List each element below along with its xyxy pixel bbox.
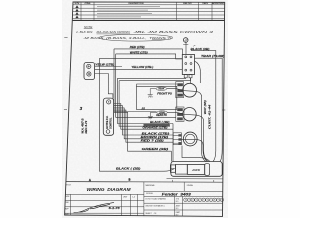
svg-text:MA-JNA SAN CROWN,: MA-JNA SAN CROWN,: [97, 30, 131, 34]
pickup P1 body: [84, 63, 95, 80]
wire to 250K oval: [114, 49, 157, 112]
svg-text:REAR PU: REAR PU: [156, 113, 168, 117]
pot R3 lugs: [178, 134, 181, 144]
svg-text:ACTIVE P.U.: ACTIVE P.U.: [106, 115, 109, 129]
svg-text:DESCRIPTION: DESCRIPTION: [129, 3, 144, 5]
wire red2 run: [114, 110, 173, 142]
wire switch lead lower: [119, 78, 190, 81]
ground lug G1: [183, 38, 188, 43]
wire white: [116, 54, 183, 59]
pickup P1 pole B: [87, 72, 91, 76]
svg-text:WIRING DIAGRAM: WIRING DIAGRAM: [87, 187, 131, 192]
wire lug to switch: [185, 42, 187, 54]
wire black top run right: [191, 51, 216, 162]
pickup P2 pole B: [106, 130, 110, 134]
revision description entries: [97, 7, 160, 17]
paper scan noise: [62, 0, 228, 218]
material finish labels: [146, 184, 194, 195]
svg-text:3: 3: [80, 106, 83, 111]
wire switch to pot1 top: [190, 78, 192, 84]
wire 250K to cap: [150, 112, 156, 116]
switch S1 bottom lugs: [184, 75, 192, 78]
svg-text:BLACK ( (3B): BLACK ( (3B): [116, 166, 140, 170]
svg-text:500K: 500K: [158, 88, 164, 91]
wire 500K to cap: [150, 89, 156, 95]
svg-text:WHT (3B): WHT (3B): [205, 100, 207, 114]
note emphasis oval: [99, 34, 173, 41]
wire switch right curve: [195, 61, 201, 83]
svg-text:TBAR (79.0M): TBAR (79.0M): [201, 54, 225, 58]
svg-text:A: A: [89, 178, 91, 182]
svg-text:ORANGE (17B): ORANGE (17B): [142, 125, 167, 129]
pot value oval 500K: [156, 87, 167, 91]
capacitor ground symbol front: [148, 95, 153, 98]
zone tick left frame: [64, 36, 67, 38]
svg-text:CURT. 41-44: CURT. 41-44: [209, 103, 212, 129]
svg-text:YELLOW (17B.): YELLOW (17B.): [131, 65, 153, 69]
pot R3 tone outer: [183, 132, 197, 146]
wire black3b run: [117, 78, 173, 123]
signature scribble: [74, 202, 115, 212]
svg-text:CONTROL: CONTROL: [110, 117, 112, 129]
standard notes cells: [145, 198, 181, 217]
jack plug tip: [170, 165, 175, 172]
label BLUE highlighted: [144, 124, 170, 126]
wire to pot2 lug3: [116, 54, 176, 117]
wire pot3 bottom to jack: [182, 146, 210, 162]
pot R1 volume front: [183, 83, 197, 97]
svg-text:YELW (17B): YELW (17B): [95, 62, 114, 66]
title block left grid: [65, 182, 144, 216]
svg-text:DATE: DATE: [202, 2, 208, 5]
wire to pot1 upper lug: [137, 84, 178, 86]
switch S1 terminals: [185, 56, 192, 71]
svg-text:JBL JM BASS CROWN 3: JBL JM BASS CROWN 3: [134, 30, 214, 34]
svg-text:RED (17B): RED (17B): [130, 45, 145, 49]
wire yellow: [95, 68, 183, 70]
pot R1 lugs: [177, 83, 183, 96]
title block right grid: [144, 182, 223, 216]
svg-text:MATERIAL: MATERIAL: [146, 184, 155, 187]
svg-text:APPROVED: APPROVED: [212, 2, 225, 5]
wire shield ground from switch to jack: [99, 59, 182, 172]
revision triangles sym column: [75, 5, 78, 18]
zone divider line below jack: [167, 178, 223, 180]
note line 2: [84, 36, 172, 40]
bracket to pot3: [172, 124, 174, 162]
svg-text:SHEET OF: SHEET OF: [145, 213, 157, 215]
svg-text:BLACK (3B): BLACK (3B): [191, 47, 210, 51]
pickup P1 pole A: [87, 64, 91, 68]
capacitor ground symbol rear: [148, 116, 153, 119]
zone marks above title block: [89, 178, 214, 182]
wire 250K through pot2 to jack: [167, 112, 208, 161]
sign row labels: [65, 196, 135, 216]
jack J1 body: [187, 165, 204, 175]
svg-text:REF NO: REF NO: [183, 3, 192, 5]
switch S1 body: [182, 55, 194, 75]
jack plug collar: [176, 164, 188, 174]
zone tick left frame lower: [64, 109, 67, 111]
wire through pot3 down: [182, 139, 208, 161]
svg-text:.02: .02: [141, 107, 145, 111]
svg-text:JZ BASS, (B-BASS, 3-BALL, TRA: JZ BASS, (B-BASS, 3-BALL, TRANS ?): [84, 36, 172, 40]
drawing sheet border frame: [65, 2, 225, 217]
svg-text:NOTE: NOTE: [84, 25, 93, 29]
detail box front circuit: [136, 86, 176, 109]
svg-text:1. BLK DW.: 1. BLK DW.: [76, 30, 93, 34]
wire 500K through pot1 to jack: [167, 89, 206, 162]
pot R2 lugs: [177, 108, 183, 120]
svg-text:B: B: [129, 178, 131, 182]
pot R3 tone inner: [185, 134, 195, 144]
pickup P2 pole A: [107, 100, 111, 104]
svg-text:BLACK ( (3B): BLACK ( (3B): [150, 120, 169, 124]
wire yelw label underline: [95, 65, 122, 67]
wire red: [114, 49, 182, 55]
svg-text:REV. 6-73: REV. 6-73: [84, 120, 88, 133]
wires bracket to pot3 lugs: [173, 135, 179, 143]
pot R1 lug box: [176, 82, 184, 98]
svg-text:ZONE: ZONE: [84, 3, 91, 5]
revision table headers: [75, 2, 225, 5]
svg-text:Fender 3403: Fender 3403: [162, 192, 191, 196]
std number digits: [185, 200, 224, 202]
title block top line: [66, 181, 223, 184]
svg-text:6-1-73: 6-1-73: [109, 207, 121, 210]
pickup P2 body (active control): [103, 98, 113, 135]
svg-text:TITLE: TITLE: [65, 184, 71, 186]
wire tbar run right: [195, 58, 223, 161]
pot R2 lug box: [176, 107, 184, 121]
wire pickup P1 lower lead to P2: [95, 74, 113, 99]
pot R2 volume rear: [183, 108, 196, 121]
pot value oval 250K: [157, 111, 168, 114]
svg-text:1-4: 1-4: [132, 196, 135, 198]
wire black17 run: [114, 106, 173, 135]
svg-text:GREEN (3B): GREEN (3B): [142, 147, 169, 151]
svg-text:FINISH: FINISH: [187, 185, 194, 187]
wire brown run: [114, 108, 173, 139]
wire green run: [114, 112, 172, 161]
svg-text:FRONT PU: FRONT PU: [157, 92, 173, 96]
jack rear cap: [205, 164, 210, 176]
revision table grid: [73, 2, 225, 20]
svg-text:RED ? (2B): RED ? (2B): [141, 139, 164, 143]
wire orange run: [114, 104, 173, 130]
svg-text:JACK: JACK: [192, 168, 201, 172]
wire blue run: [119, 81, 170, 127]
pot R3 lug box: [173, 133, 181, 145]
zone tick right frame: [222, 109, 225, 111]
std number circled digits: [184, 198, 224, 202]
wire switch lead upper: [117, 77, 185, 80]
svg-text:SYM: SYM: [75, 3, 80, 5]
svg-text:MODEL: MODEL: [146, 193, 153, 195]
jack plate outline: [171, 162, 222, 177]
note line 1: [76, 30, 214, 34]
